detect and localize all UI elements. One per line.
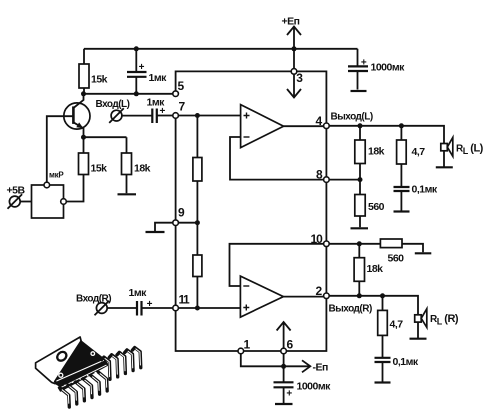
node 9 (173, 206, 185, 226)
svg-text:4,7: 4,7 (412, 146, 426, 158)
svg-text:1000мк: 1000мк (297, 381, 332, 393)
resistor 18k (feedback L) (355, 126, 385, 180)
svg-text:RL (L): RL (L) (456, 143, 484, 157)
svg-text:18k: 18k (368, 146, 385, 158)
node 8 (316, 168, 329, 183)
input terminal +5В (7, 185, 32, 209)
node 3 (291, 69, 303, 85)
op-amp U1 (left channel) (241, 105, 284, 148)
wire node6 to node2 leg (287, 299, 327, 351)
IC body (55, 341, 108, 391)
svg-text:+5В: +5В (7, 185, 26, 197)
wire vertical node7-node9 (175, 118, 177, 219)
ground (560 L) (351, 227, 369, 229)
node dot divider top (195, 113, 200, 118)
wire node1-node6 (244, 350, 281, 352)
transistor VT1 (47, 94, 90, 182)
svg-text:+: + (361, 57, 367, 68)
ground (zobel L) (394, 210, 410, 212)
node 6 (281, 338, 294, 354)
svg-text:1мк: 1мк (129, 287, 148, 299)
capacitor 1000мк (bottom, supply) (274, 381, 332, 405)
input terminal Вход(R) (76, 294, 111, 316)
wire node 11 to op-amp + input (179, 307, 241, 309)
capacitor 1мк (input L coupling) (147, 97, 166, 124)
IC pin root specks (64, 372, 96, 387)
input terminal Вход(L) (96, 99, 130, 123)
resistor 18k (feedback R) (354, 244, 383, 296)
svg-text:15k: 15k (91, 74, 108, 86)
wire emitter row (84, 136, 127, 138)
resistor (divider upper, unlabelled) (193, 116, 202, 223)
wire bus node4-node8 (325, 129, 327, 177)
node 4 (316, 112, 373, 129)
svg-text:3: 3 (296, 71, 303, 85)
wire node 8 to 18k/560 junction (329, 179, 360, 181)
svg-text:Выход(L): Выход(L) (331, 112, 373, 123)
resistor 560 (feedback R, horizontal) (380, 239, 423, 265)
svg-text:1: 1 (244, 338, 251, 352)
node dot feedback L (358, 177, 363, 182)
resistor 15k (emitter) (66, 137, 107, 201)
node dot cap1 bottom (134, 91, 139, 96)
node 10 (311, 232, 330, 247)
resistor 15k (collector load) (79, 49, 108, 94)
node dot 18k top (358, 123, 363, 128)
node dot 4,7 top (399, 123, 404, 128)
capacitor 1мк (input R coupling) (129, 287, 153, 316)
capacitor 1мк (rail bypass) (127, 49, 167, 94)
resistor (divider lower, unlabelled) (193, 223, 202, 308)
svg-text:4,7: 4,7 (390, 319, 404, 331)
node dot -Еп (281, 364, 286, 369)
ground (zobel R) (375, 381, 391, 383)
ground (560 R) (415, 252, 432, 254)
wire node 3 right and down to node 4 (297, 71, 327, 123)
node 1 (238, 338, 251, 354)
control box (mute/standby) (32, 171, 67, 219)
node 2 (316, 284, 372, 315)
wire collector row to node 5 (84, 93, 173, 95)
node 11 (173, 293, 190, 311)
wire input R to cap (107, 307, 137, 309)
resistor 18k (emitter divider) (122, 137, 151, 193)
wire bus node8-node10 (325, 183, 327, 241)
node dot rail/cap1 (134, 46, 139, 51)
wire rail to cap1000 top (357, 49, 359, 66)
wire node 6 drop (283, 354, 285, 382)
IC tab heatsink (36, 337, 82, 384)
wire input L to cap (122, 115, 152, 117)
svg-text:18k: 18k (134, 163, 151, 175)
wire U2 feedback node 10 (230, 244, 324, 286)
wire cap to node 7 (157, 115, 173, 117)
wire U2 output to node 2 (283, 296, 323, 298)
wire +Еп dot down to node 3 (293, 49, 295, 69)
IC body marks (59, 373, 63, 377)
svg-text:Вход(L): Вход(L) (96, 99, 130, 110)
resistor 4,7 (zobel R) (378, 296, 404, 357)
wire node 5 up and right to node 3 (176, 71, 292, 90)
svg-text:RL (R): RL (R) (430, 313, 459, 327)
svg-text:18k: 18k (367, 263, 384, 275)
wire top supply rail (84, 48, 358, 50)
svg-text:-Еп: -Еп (313, 362, 329, 374)
wire U1 output to node 4 (284, 125, 324, 127)
node dot 4,7 R top (380, 293, 385, 298)
node dot 18k R bottom (357, 293, 362, 298)
svg-text:Выход(R): Выход(R) (329, 304, 372, 315)
IC tab hole (55, 350, 68, 362)
resistor 560 (feedback L) (355, 180, 385, 228)
wire vertical node9-node11 (175, 226, 177, 306)
node 7 (173, 100, 186, 119)
node dot emitter (81, 135, 86, 140)
svg-text:+: + (139, 62, 145, 73)
node 5 (173, 79, 185, 96)
wire node 1 drop to -Еп rail (241, 354, 284, 366)
svg-text:0,1мк: 0,1мк (412, 184, 438, 196)
arrow above node 6 pointing up (283, 323, 285, 349)
resistor 4,7 (zobel L) (397, 126, 426, 187)
wire node 4 output row (329, 126, 444, 144)
ground (node 9) (146, 231, 165, 233)
node dot divider mid (195, 220, 200, 225)
power symbol -Еп arrow (284, 360, 328, 373)
wire node 9 to divider junction (179, 222, 198, 224)
svg-text:0,1мк: 0,1мк (393, 356, 419, 368)
svg-text:+: + (286, 389, 292, 400)
IC package pictorial (36, 337, 141, 407)
svg-text:+Еп: +Еп (282, 16, 300, 28)
svg-text:9: 9 (178, 206, 185, 220)
capacitor 0,1мк (zobel R) (375, 356, 419, 382)
speaker RL(L) (436, 138, 484, 168)
node dot rail/+Еп (292, 46, 297, 51)
node dot collector (81, 91, 86, 96)
svg-text:1000мк: 1000мк (371, 62, 406, 74)
svg-text:15k: 15k (91, 163, 108, 175)
svg-text:6: 6 (287, 338, 294, 352)
svg-text:560: 560 (388, 253, 405, 265)
node dot at divider bottom (195, 306, 200, 311)
svg-text:мкР: мкР (49, 171, 64, 180)
IC pins back row (102, 348, 141, 380)
svg-text:560: 560 (368, 201, 385, 213)
power symbol +Еп arrow (282, 16, 302, 49)
wire node 7 to op-amp + input (179, 115, 241, 117)
svg-text:8: 8 (316, 168, 323, 182)
wire node 2 output row (329, 296, 418, 315)
wire bus node10-node2 (325, 247, 327, 293)
svg-text:5: 5 (178, 79, 185, 93)
arrow below node 3 pointing down (293, 74, 295, 97)
ground (18k emitter) (118, 193, 137, 195)
IC pins front row (61, 372, 108, 407)
svg-text:1мк: 1мк (149, 72, 168, 84)
wire cap to node 11 (142, 307, 173, 309)
node dot 560/18k R (357, 241, 362, 246)
wire node 9 to ground (155, 223, 173, 232)
wire U1 feedback to node 8 (230, 137, 324, 180)
op-amp U2 (right channel) (240, 276, 283, 317)
wire node 10 right (329, 243, 380, 245)
capacitor 1000мк (top, supply) (348, 57, 405, 91)
wire node11 down to bottom rail (176, 311, 238, 351)
speaker RL(R) (410, 309, 459, 339)
svg-text:4: 4 (316, 114, 323, 128)
svg-text:7: 7 (179, 100, 186, 114)
capacitor 0,1мк (zobel L) (394, 184, 438, 211)
